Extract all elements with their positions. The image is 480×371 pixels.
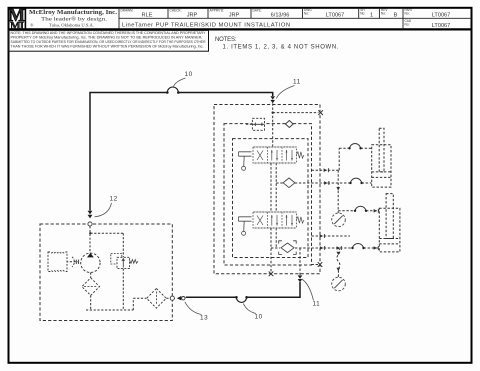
svg-text:1. ITEMS 1, 2, 3, & 4 NOT SHOW: 1. ITEMS 1, 2, 3, & 4 NOT SHOWN. <box>223 45 339 51</box>
svg-text:No:: No: <box>405 23 410 27</box>
svg-text:13: 13 <box>200 315 208 322</box>
svg-text:NOTES:: NOTES: <box>215 37 237 43</box>
svg-text:No:: No: <box>360 12 365 16</box>
svg-text:®: ® <box>30 23 34 28</box>
svg-text:RLE: RLE <box>142 12 153 18</box>
svg-text:No:: No: <box>304 12 309 16</box>
svg-text:LT0067: LT0067 <box>326 12 345 18</box>
svg-text:6/13/96: 6/13/96 <box>271 12 290 18</box>
svg-text:No:: No: <box>381 12 386 16</box>
svg-text:11: 11 <box>313 301 321 308</box>
svg-text:DRAWN:: DRAWN: <box>121 8 134 12</box>
svg-text:1: 1 <box>370 12 373 18</box>
svg-text:NOTE: THIS DRAWING AND THE INF: NOTE: THIS DRAWING AND THE INFORMATION C… <box>11 31 207 35</box>
svg-text:LT0067: LT0067 <box>432 12 451 18</box>
svg-text:THAN THOSE FOR WHICH IT WAS FU: THAN THOSE FOR WHICH IT WAS FURNISHED WI… <box>11 44 204 48</box>
svg-text:11: 11 <box>293 79 301 86</box>
svg-text:10: 10 <box>185 71 193 78</box>
svg-text:LineTamer PUP TRAILER/SKID MOU: LineTamer PUP TRAILER/SKID MOUNT INSTALL… <box>122 22 290 28</box>
svg-text:SUBMITTED TO OUTSIDE PARTIES F: SUBMITTED TO OUTSIDE PARTIES FOR EXAMINA… <box>11 40 207 44</box>
svg-text:LT0067: LT0067 <box>432 23 451 29</box>
svg-text:JRP: JRP <box>229 12 240 18</box>
svg-text:CHECK:: CHECK: <box>170 8 182 12</box>
svg-text:APPRV'D:: APPRV'D: <box>210 8 225 12</box>
svg-text:The leader® by design.: The leader® by design. <box>41 16 108 23</box>
svg-text:JRP: JRP <box>187 12 198 18</box>
svg-text:DATE:: DATE: <box>253 8 262 12</box>
svg-text:B: B <box>394 12 398 18</box>
svg-text:12: 12 <box>110 196 118 203</box>
svg-text:No:: No: <box>405 12 410 16</box>
svg-text:10: 10 <box>255 314 263 321</box>
svg-text:McElroy Manufacturing, Inc.: McElroy Manufacturing, Inc. <box>29 10 118 16</box>
svg-text:PROPERTY OF McElroy Manufactur: PROPERTY OF McElroy Manufacturing, Inc. … <box>11 35 203 39</box>
